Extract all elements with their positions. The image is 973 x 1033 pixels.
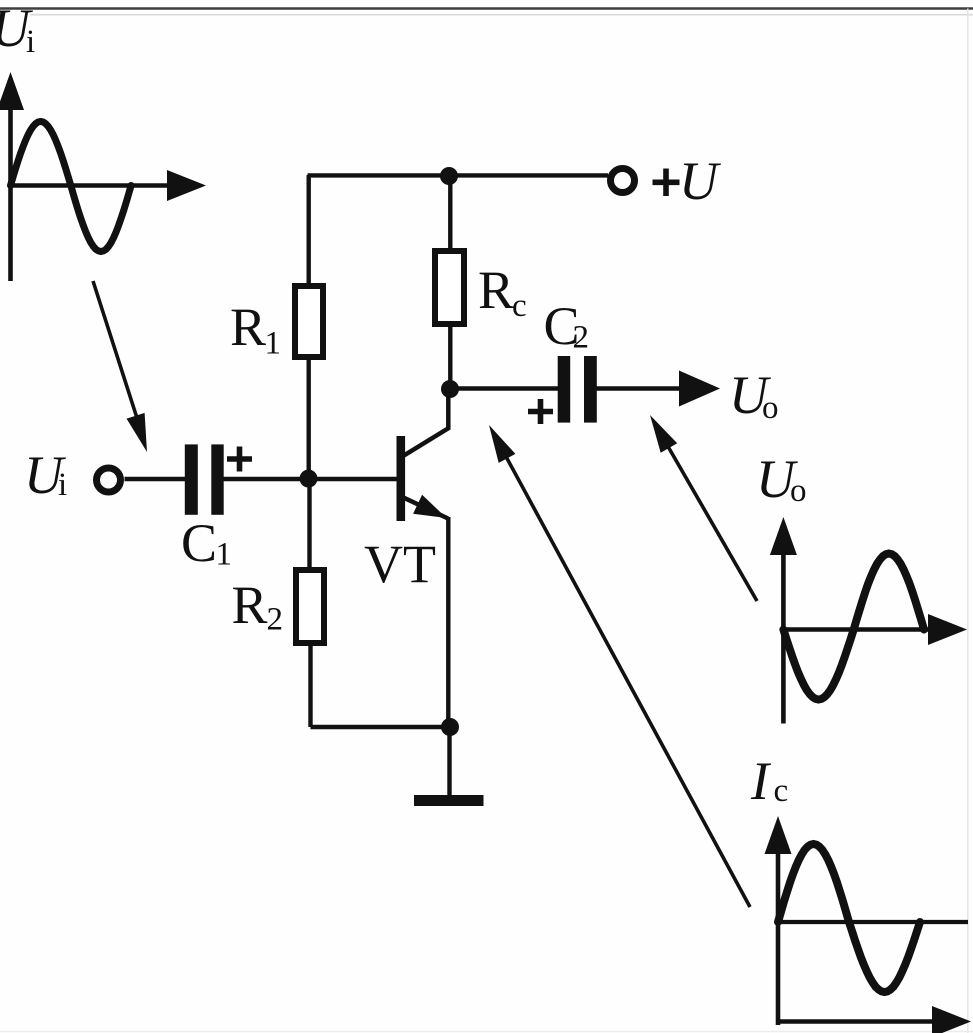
input waveform X axis bbox=[8, 170, 206, 201]
svg-text:1: 1 bbox=[265, 326, 282, 362]
node at collector junction bbox=[441, 380, 459, 398]
resistor R2 bbox=[296, 570, 324, 643]
Ic sine wave bbox=[778, 844, 920, 992]
transistor VT base bar bbox=[397, 436, 406, 521]
svg-text:2: 2 bbox=[573, 320, 590, 356]
wire R2 to bottom rail bbox=[308, 643, 312, 727]
capacitor C1 bbox=[185, 444, 252, 514]
svg-text:c: c bbox=[512, 288, 527, 324]
resistor R1 bbox=[295, 286, 323, 357]
wire rail down to R1 bbox=[307, 175, 311, 285]
output waveform Y axis bbox=[770, 517, 797, 724]
wire Rc to collector node bbox=[448, 324, 452, 389]
pointer arrow from Uo waveform to output bbox=[650, 415, 757, 601]
Ic waveform X axis bbox=[776, 1006, 971, 1033]
transistor VT emitter lead with arrow bbox=[404, 495, 448, 519]
node at base junction bbox=[300, 470, 318, 488]
svg-text:2: 2 bbox=[267, 602, 284, 638]
input terminal circle bbox=[97, 468, 121, 492]
node on top rail above Rc bbox=[440, 167, 458, 185]
svg-text:o: o bbox=[790, 473, 807, 509]
wire collector node to C2 bbox=[450, 386, 558, 390]
Ic waveform bias mid-line bbox=[776, 920, 968, 924]
label +U bbox=[653, 169, 680, 197]
wire rail down to Rc bbox=[448, 175, 452, 250]
arrow from input waveform to input terminal bbox=[93, 281, 147, 452]
wire terminal to C1 bbox=[125, 477, 187, 481]
wire C1 to base node bbox=[224, 477, 313, 481]
svg-text:o: o bbox=[762, 390, 779, 426]
wire R1 to base node bbox=[307, 357, 311, 479]
svg-text:R: R bbox=[230, 297, 266, 357]
input waveform Y axis bbox=[0, 72, 24, 281]
Ic waveform Y axis bbox=[765, 816, 792, 1025]
svg-text:i: i bbox=[58, 467, 67, 503]
capacitor C2 bbox=[528, 356, 597, 424]
wire top supply rail bbox=[308, 173, 609, 177]
transistor VT collector lead bbox=[404, 389, 448, 455]
svg-text:U: U bbox=[679, 151, 721, 211]
svg-text:c: c bbox=[774, 773, 789, 809]
svg-text:VT: VT bbox=[364, 534, 436, 594]
ground symbol bbox=[414, 795, 484, 806]
svg-text:I: I bbox=[750, 751, 772, 811]
wire emitter down to bottom node bbox=[446, 517, 450, 727]
wire node to ground bbox=[447, 727, 451, 796]
pointer arrow from Ic waveform to collector bbox=[489, 425, 750, 907]
output waveform X axis bbox=[781, 614, 967, 645]
svg-text:1: 1 bbox=[216, 537, 233, 573]
node at emitter / bottom rail junction bbox=[441, 718, 459, 736]
svg-text:i: i bbox=[26, 24, 35, 60]
output sine wave Uo (inverted phase) bbox=[783, 554, 924, 700]
power terminal +U circle bbox=[611, 169, 635, 193]
input sine wave Ui bbox=[11, 122, 132, 252]
svg-text:C: C bbox=[181, 513, 217, 573]
svg-text:R: R bbox=[232, 575, 268, 635]
output arrow wire with Uo arrowhead bbox=[597, 371, 721, 407]
wire base node down to R2 bbox=[307, 479, 311, 570]
transistor VT base wire bbox=[309, 477, 398, 481]
wire bottom rail bbox=[311, 725, 451, 729]
svg-text:R: R bbox=[478, 260, 514, 320]
resistor Rc bbox=[435, 251, 464, 324]
